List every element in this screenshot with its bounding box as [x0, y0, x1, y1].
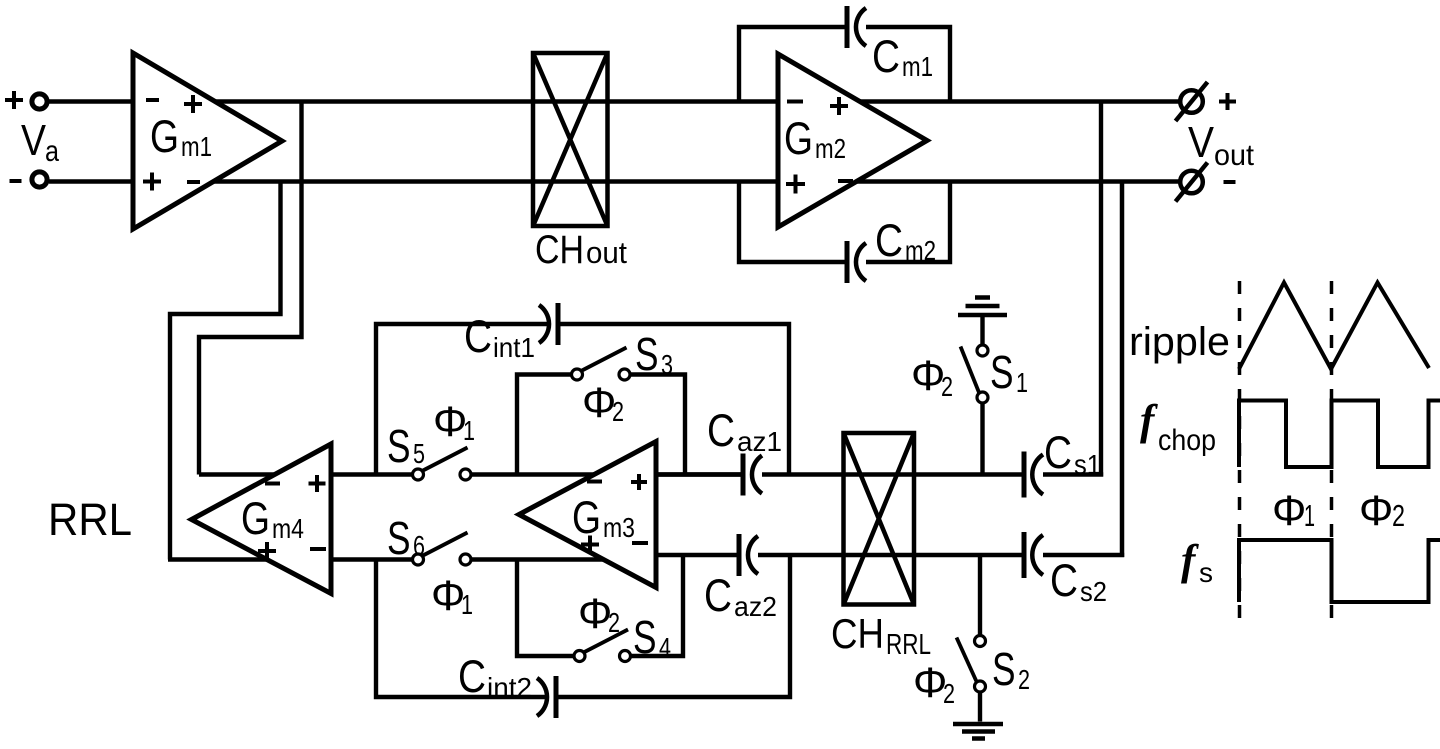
- svg-text:G: G: [150, 111, 179, 162]
- svg-text:V: V: [1188, 118, 1215, 167]
- label Phi2 for S4: [578, 590, 620, 638]
- terminal Vout- phi symbol: [1176, 163, 1208, 202]
- node Vout labels: [1188, 93, 1255, 182]
- switch S3: [572, 328, 674, 380]
- svg-text:1: 1: [1016, 367, 1028, 398]
- svg-text:S: S: [387, 512, 411, 564]
- svg-text:C: C: [458, 651, 486, 702]
- wire RRL bottom right Gm3 to Caz2 to CHRRL to Cs2: [656, 553, 1124, 557]
- svg-text:m3: m3: [603, 512, 635, 543]
- capacitor Cm1: [847, 6, 933, 82]
- wire feedback tap A from bottom rail down-left to Gm4 bottom input: [170, 182, 281, 560]
- svg-text:out: out: [1214, 139, 1255, 172]
- svg-text:RRL: RRL: [48, 494, 132, 545]
- wire feedback tap B from top rail down-left to Gm4 top input: [199, 102, 302, 475]
- svg-text:ripple: ripple: [1129, 320, 1230, 364]
- svg-text:C: C: [872, 31, 900, 82]
- svg-text:int2: int2: [487, 672, 532, 703]
- svg-text:C: C: [464, 311, 492, 362]
- wire RRL top right Gm3 to Caz1 to CHRRL to Cs1: [656, 472, 1103, 476]
- ground below S2: [953, 724, 1003, 739]
- svg-text:a: a: [45, 135, 59, 168]
- svg-text:2: 2: [608, 607, 620, 638]
- svg-text:C: C: [704, 570, 732, 621]
- chopper CHRRL: [844, 433, 915, 605]
- capacitor Cint2: [458, 651, 556, 718]
- svg-text:1: 1: [463, 415, 475, 446]
- svg-text:C: C: [1050, 555, 1078, 606]
- switch S4: [574, 611, 671, 663]
- label fchop: [1140, 397, 1216, 457]
- capacitor Caz2: [704, 534, 777, 622]
- svg-text:6: 6: [413, 530, 425, 561]
- ground above S1: [958, 298, 1007, 316]
- label Phi1 for S5: [433, 398, 475, 446]
- op-amp Gm4: [192, 444, 332, 594]
- svg-text:f: f: [1181, 537, 1199, 584]
- switch S1: [961, 345, 1029, 403]
- wire vertical sense from Vout+ rail down to Cs1: [1099, 102, 1103, 477]
- waveform fs square wave: [1239, 540, 1440, 602]
- wire RRL bottom row Gm4 input through S6 to Gm3 output: [168, 557, 604, 561]
- node Va labels: [5, 91, 59, 181]
- label Phi2 for S2: [913, 659, 955, 709]
- svg-text:az1: az1: [737, 426, 782, 457]
- waveform dashed line phase boundary 2: [1330, 281, 1334, 629]
- label fs: [1181, 537, 1213, 588]
- svg-text:m2: m2: [815, 133, 846, 164]
- svg-text:S: S: [990, 346, 1014, 398]
- svg-text:m1: m1: [181, 131, 212, 162]
- label CHRRL: [831, 610, 931, 661]
- svg-text:S: S: [992, 643, 1016, 695]
- label CHout: [535, 228, 627, 272]
- label Phi1 for S6: [431, 572, 473, 620]
- capacitor Caz1: [707, 405, 782, 496]
- waveform ripple triangle wave: [1239, 283, 1429, 370]
- svg-text:V: V: [21, 116, 47, 165]
- svg-text:f: f: [1140, 397, 1158, 444]
- capacitor Cs1: [1024, 427, 1101, 498]
- svg-text:2: 2: [941, 371, 953, 402]
- svg-text:1: 1: [461, 589, 473, 620]
- svg-text:G: G: [241, 493, 270, 544]
- switch S5: [387, 420, 471, 480]
- svg-text:RRL: RRL: [886, 629, 931, 661]
- terminal Vout+ phi symbol: [1176, 82, 1208, 121]
- svg-text:az2: az2: [734, 591, 777, 622]
- wire Cm1 loop: [739, 27, 950, 102]
- wire Cint1 loop: [376, 324, 789, 475]
- wire Cm2 loop: [739, 182, 950, 263]
- svg-text:m1: m1: [902, 51, 933, 82]
- op-amp Gm3: [519, 442, 656, 588]
- svg-text:m4: m4: [272, 513, 304, 544]
- waveform dashed line phase boundary 1: [1238, 281, 1242, 629]
- terminal Va- circle: [32, 172, 47, 187]
- wire bottom main rail Va- to Vout-: [49, 179, 1181, 183]
- svg-text:S: S: [635, 328, 659, 380]
- wire S3 loop: [517, 375, 685, 475]
- wire S1 stem to top RRL row: [980, 317, 984, 475]
- terminal Va+ circle: [32, 94, 47, 109]
- svg-text:CH: CH: [535, 228, 584, 272]
- svg-text:C: C: [1044, 427, 1072, 478]
- label Phi2 waveform: [1359, 487, 1405, 535]
- wire S4 loop: [517, 555, 683, 656]
- waveform fchop square wave: [1239, 401, 1440, 468]
- svg-text:G: G: [784, 113, 813, 164]
- svg-text:G: G: [572, 492, 601, 543]
- switch S6: [387, 512, 471, 565]
- svg-text:s1: s1: [1074, 449, 1101, 480]
- svg-text:s: s: [1199, 557, 1213, 588]
- svg-text:Φ: Φ: [1272, 487, 1306, 535]
- svg-text:Φ: Φ: [1359, 487, 1393, 535]
- capacitor Cint1: [464, 303, 558, 363]
- svg-text:s2: s2: [1080, 576, 1107, 607]
- chopper CHout: [533, 53, 608, 226]
- svg-text:chop: chop: [1158, 424, 1216, 457]
- capacitor Cm2: [847, 215, 936, 283]
- svg-text:2: 2: [943, 678, 955, 709]
- label Phi2 for S3: [582, 379, 624, 427]
- label Phi2 for S1: [911, 352, 953, 402]
- svg-text:1: 1: [1304, 498, 1315, 533]
- op-amp Gm1: [133, 53, 282, 229]
- svg-text:5: 5: [413, 438, 425, 469]
- svg-text:S: S: [633, 611, 657, 663]
- svg-text:int1: int1: [493, 332, 535, 363]
- svg-text:2: 2: [1018, 664, 1030, 695]
- capacitor Cs2: [1024, 532, 1107, 607]
- svg-text:4: 4: [659, 632, 671, 663]
- svg-text:out: out: [586, 235, 627, 270]
- svg-text:C: C: [875, 215, 903, 266]
- op-amp Gm2: [778, 54, 927, 227]
- wire S2 stem from bottom RRL row: [978, 555, 982, 722]
- wire RRL top row Gm4 input through S5 to Gm3 output: [199, 472, 743, 476]
- wire top main rail Va+ to Vout+: [47, 99, 1181, 103]
- svg-text:C: C: [707, 405, 735, 456]
- switch S2: [957, 636, 1031, 696]
- wire Cint2 loop: [376, 555, 790, 697]
- svg-text:S: S: [387, 420, 411, 472]
- svg-text:2: 2: [1392, 498, 1405, 533]
- svg-text:m2: m2: [905, 235, 936, 266]
- wire vertical sense from Vout- rail down to Cs2: [1120, 182, 1125, 558]
- svg-text:3: 3: [661, 349, 673, 380]
- svg-text:2: 2: [612, 396, 624, 427]
- label Phi1 waveform: [1272, 487, 1315, 535]
- svg-text:CH: CH: [831, 610, 884, 657]
